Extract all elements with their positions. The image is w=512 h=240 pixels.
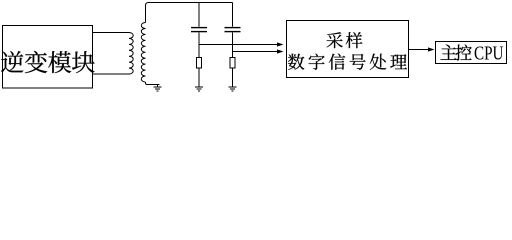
label 主控 bbox=[441, 45, 472, 61]
ground (R1) bbox=[195, 87, 203, 91]
wire box to transformer primary top bbox=[93, 32, 130, 34]
ground (secondary) bbox=[154, 85, 162, 92]
arrowhead into sampling box (signal 2) bbox=[277, 49, 284, 53]
transformer T1 secondary coil bbox=[141, 23, 145, 82]
main control CPU box (主控CPU) bbox=[436, 42, 507, 64]
capacitor C2 bbox=[225, 28, 241, 32]
arrowhead into sampling box (signal 1) bbox=[277, 42, 284, 46]
label 采样 bbox=[327, 32, 363, 48]
wire box to transformer primary bottom bbox=[93, 73, 130, 75]
wire sample signal 1 bbox=[199, 44, 277, 46]
label 逆变模块 bbox=[1, 51, 94, 73]
wire R2 to ground bbox=[232, 68, 234, 87]
wire top rail to capacitor C2 bbox=[232, 3, 234, 27]
wire sampling box to CPU bbox=[409, 49, 429, 51]
inverter module box (逆变模块) bbox=[3, 26, 93, 89]
wire R1 to ground bbox=[198, 68, 200, 87]
wire C2 to resistor R2 bbox=[232, 33, 234, 59]
sampling / DSP box (采样 数字信号处理) bbox=[287, 21, 409, 78]
wire sample signal 2 bbox=[233, 51, 278, 53]
wire secondary bottom lead bbox=[146, 82, 160, 85]
wire C1 to resistor R1 bbox=[198, 33, 200, 59]
label 数字信号处理 bbox=[288, 54, 407, 70]
transformer T1 primary coil bbox=[129, 33, 133, 75]
wire top rail to capacitor C1 bbox=[198, 3, 200, 27]
resistor R2 bbox=[230, 58, 235, 69]
resistor R1 bbox=[197, 58, 202, 69]
ground (R2) bbox=[229, 87, 237, 91]
capacitor C1 bbox=[191, 28, 207, 32]
svg-text:CPU: CPU bbox=[474, 42, 504, 64]
wire secondary top lead and top rail bbox=[146, 3, 233, 23]
arrowhead into CPU box bbox=[428, 47, 435, 51]
